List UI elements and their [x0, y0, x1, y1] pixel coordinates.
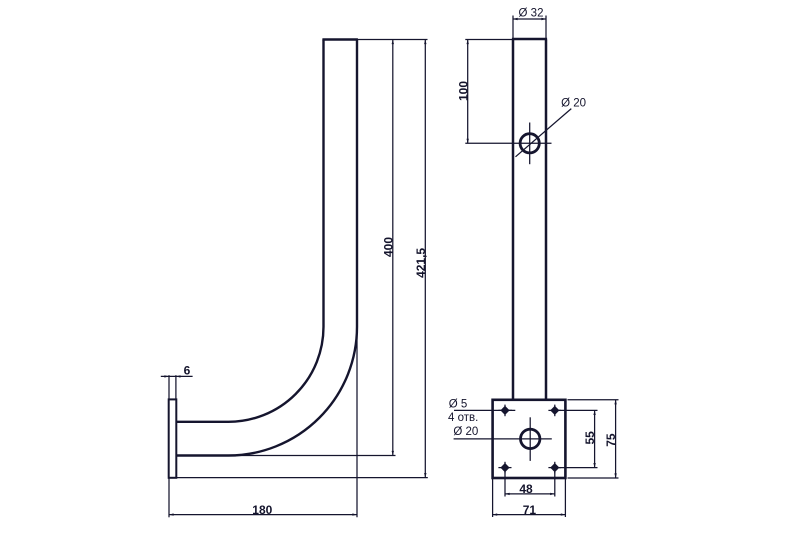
svg-text:6: 6: [184, 363, 191, 377]
svg-text:400: 400: [381, 237, 395, 257]
svg-text:Ø 20: Ø 20: [453, 426, 478, 438]
svg-text:100: 100: [456, 81, 470, 101]
svg-text:4 отв.: 4 отв.: [448, 412, 478, 424]
svg-text:Ø 20: Ø 20: [561, 97, 586, 109]
svg-text:55: 55: [583, 431, 597, 445]
svg-text:75: 75: [604, 433, 618, 447]
svg-text:Ø 32: Ø 32: [519, 8, 544, 20]
svg-text:48: 48: [519, 482, 533, 496]
svg-text:Ø 5: Ø 5: [449, 399, 468, 411]
svg-text:421,5: 421,5: [414, 248, 428, 278]
svg-text:71: 71: [523, 503, 537, 517]
svg-text:180: 180: [252, 503, 272, 517]
